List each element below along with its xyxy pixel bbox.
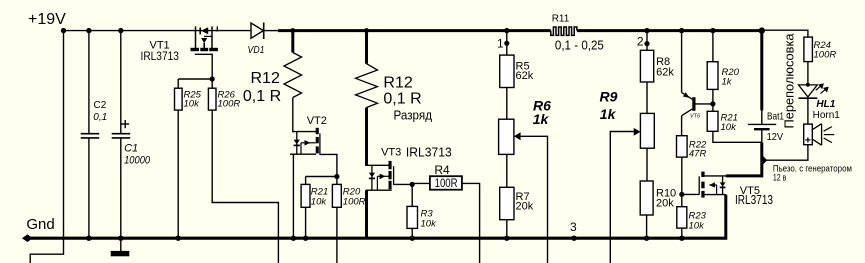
svg-text:1k: 1k xyxy=(533,111,550,127)
svg-text:Переполюсовка: Переполюсовка xyxy=(782,33,797,129)
piezo horn speaker xyxy=(804,124,835,146)
transistor VT2 xyxy=(290,115,327,155)
wire R26 stub xyxy=(211,79,213,88)
svg-text:Gnd: Gnd xyxy=(26,216,54,233)
wire gate node horizontal xyxy=(178,78,212,80)
svg-text:VT3: VT3 xyxy=(381,147,401,159)
junction dot xyxy=(176,236,181,241)
svg-text:IRL3713: IRL3713 xyxy=(406,145,452,160)
wire node to R4 xyxy=(412,182,430,184)
wire left column down + bottom step xyxy=(30,31,63,263)
wire R23 to ground xyxy=(681,228,683,238)
wire R25 to ground xyxy=(177,110,179,238)
svg-text:0,1: 0,1 xyxy=(93,112,107,123)
wire VT3 gate to node xyxy=(394,183,413,185)
wire R21 to ground xyxy=(305,207,307,238)
svg-text:C2: C2 xyxy=(94,100,107,111)
wire R7 to ground xyxy=(506,220,508,239)
resistor R21 (VT2) xyxy=(301,184,328,207)
junction dot xyxy=(291,236,296,241)
wire R5 to R6 xyxy=(506,88,508,120)
potentiometer R9 xyxy=(600,89,655,149)
wire Gnd rail xyxy=(27,237,727,240)
svg-text:20k: 20k xyxy=(516,201,534,213)
resistor R12 first (0.1R shunt) xyxy=(243,28,302,105)
wire R4 right down through rail xyxy=(462,183,480,263)
transistor VT3 xyxy=(366,145,452,191)
wire VT2 gate to R20 xyxy=(320,154,337,176)
junction dot xyxy=(334,174,339,179)
resistor R26 xyxy=(208,88,240,110)
resistor R10 xyxy=(640,181,676,215)
wire gate node horizontal xyxy=(306,176,337,178)
resistor R4 xyxy=(430,163,462,190)
wire R12-1 to VT2 drain xyxy=(292,98,294,133)
transistor VT6 (PNP) xyxy=(679,28,713,136)
junction dot xyxy=(118,236,123,241)
wire C2 column xyxy=(88,31,90,133)
wire thin rail to R24 xyxy=(762,30,808,37)
svg-text:R4: R4 xyxy=(434,163,450,177)
resistor R20 (VT2) xyxy=(332,184,365,207)
junction dot xyxy=(61,28,66,33)
wire VT1 gate down xyxy=(211,54,213,79)
svg-text:IRL3713: IRL3713 xyxy=(141,49,180,63)
wire R21 to battery minus node xyxy=(713,131,762,142)
diode VD1 xyxy=(248,23,279,57)
wire R8 to R9 xyxy=(646,82,648,113)
junction dot xyxy=(679,236,684,241)
wire C1 column xyxy=(120,31,122,133)
wire VT5 source to ground (thick) xyxy=(724,195,727,237)
wire R25 stub xyxy=(177,79,179,88)
wire VT2 source to ground xyxy=(292,154,294,238)
wire +19V rail thick right xyxy=(577,29,762,32)
svg-text:1: 1 xyxy=(497,37,504,51)
svg-text:2: 2 xyxy=(637,34,644,48)
resistor R5 xyxy=(500,55,534,87)
resistor R12 second (discharge) xyxy=(356,28,433,122)
capacitor C1 xyxy=(112,120,151,166)
node 1 xyxy=(504,28,509,33)
transistor VT1 xyxy=(141,26,218,63)
capacitor C2 xyxy=(81,100,108,138)
wire battery minus thick down xyxy=(760,142,763,177)
wire +19V rail thick middle xyxy=(278,29,551,32)
junction dot xyxy=(303,236,308,241)
node 3 xyxy=(571,236,576,241)
svg-text:62k: 62k xyxy=(656,66,674,78)
resistor R8 xyxy=(640,50,674,82)
svg-text:R12: R12 xyxy=(251,70,280,87)
svg-text:100R: 100R xyxy=(343,196,366,207)
gnd rail left arrow xyxy=(22,234,33,242)
svg-text:IRL3713: IRL3713 xyxy=(735,193,773,207)
svg-text:47R: 47R xyxy=(689,149,707,160)
svg-text:62k: 62k xyxy=(516,70,534,82)
piezo feed arrow xyxy=(763,156,767,165)
junction dot xyxy=(504,236,509,241)
wire LED to horn xyxy=(807,98,809,124)
junction dot xyxy=(86,236,91,241)
svg-text:10k: 10k xyxy=(721,122,738,133)
svg-text:100R: 100R xyxy=(435,178,458,190)
wire R3 to ground xyxy=(411,228,413,238)
svg-text:10k: 10k xyxy=(184,99,201,110)
svg-text:1k: 1k xyxy=(722,77,733,88)
LED HL1 xyxy=(799,83,841,121)
resistor R25 xyxy=(175,88,202,110)
wire R20 down through rail xyxy=(336,207,338,263)
svg-text:10k: 10k xyxy=(421,218,438,229)
resistor R21 (right) xyxy=(707,111,738,133)
svg-text:C1: C1 xyxy=(124,142,138,154)
junction dot xyxy=(86,28,91,33)
wire R10 to ground xyxy=(646,215,648,238)
svg-text:0,1 - 0,25: 0,1 - 0,25 xyxy=(555,37,604,52)
svg-text:VT2: VT2 xyxy=(307,115,327,127)
wire R20 to R21 xyxy=(712,89,714,111)
svg-text:HL1: HL1 xyxy=(816,99,835,110)
wire VT3 source to ground (thick) xyxy=(365,190,368,237)
resistor R23 xyxy=(677,207,707,232)
junction dot xyxy=(710,101,715,106)
svg-text:VT6: VT6 xyxy=(690,114,701,120)
svg-text:10k: 10k xyxy=(311,196,328,207)
junction dot xyxy=(679,192,684,197)
svg-text:VD1: VD1 xyxy=(248,45,265,56)
wire to piezo xyxy=(767,145,808,161)
wire R24 to LED xyxy=(807,62,809,85)
resistor R7 xyxy=(500,187,534,219)
wire node to R3 xyxy=(411,184,413,206)
junction dot xyxy=(118,28,123,33)
resistor R11 (inline meander) xyxy=(551,13,604,52)
svg-text:1k: 1k xyxy=(600,106,617,122)
potentiometer R6 xyxy=(499,98,552,155)
svg-text:R12: R12 xyxy=(383,75,412,92)
junction dot xyxy=(410,236,415,241)
wire node to R23 xyxy=(681,194,683,206)
svg-text:R9: R9 xyxy=(600,89,618,105)
svg-text:12V: 12V xyxy=(767,132,784,143)
wire R9 wiper left-down xyxy=(610,132,633,263)
resistor R20 (right) xyxy=(707,28,739,90)
wire VT5 drain thick to battery column xyxy=(726,174,762,177)
svg-text:R11: R11 xyxy=(552,13,570,24)
ground symbol xyxy=(111,238,130,256)
resistor R3 xyxy=(407,206,437,229)
svg-text:100R: 100R xyxy=(218,99,241,110)
svg-text:3: 3 xyxy=(570,220,577,234)
junction dot xyxy=(210,76,215,81)
wire R6 to R7 xyxy=(506,154,508,187)
wire R20 stub xyxy=(336,177,338,185)
wire node to VT5 gate xyxy=(682,193,699,195)
resistor R24 xyxy=(804,37,836,62)
wire +19V rail thin left xyxy=(64,30,252,32)
wire R9 to R10 xyxy=(646,148,648,181)
wire R12-2 to VT3 drain (thick) xyxy=(365,108,368,166)
node 2 xyxy=(644,28,649,33)
svg-text:12 в: 12 в xyxy=(773,173,787,183)
svg-text:10k: 10k xyxy=(689,220,706,231)
resistor R22 xyxy=(677,136,708,160)
svg-text:0,1 R: 0,1 R xyxy=(243,88,281,105)
svg-text:100R: 100R xyxy=(814,49,837,60)
svg-text:+19V: +19V xyxy=(28,11,66,28)
wire R26 route down-right-down xyxy=(212,110,278,263)
svg-text:0,1 R: 0,1 R xyxy=(383,91,421,108)
svg-text:Разряд: Разряд xyxy=(394,108,433,123)
wire R22 to node xyxy=(681,157,683,194)
battery Bat1 xyxy=(748,27,785,143)
junction dot xyxy=(410,182,415,187)
wire R6 wiper right-down xyxy=(521,136,548,263)
svg-text:20k: 20k xyxy=(656,198,674,210)
junction dot xyxy=(644,236,649,241)
svg-text:Horn1: Horn1 xyxy=(813,110,841,121)
wire R21 stub xyxy=(305,177,307,185)
svg-text:10000: 10000 xyxy=(124,154,151,166)
transistor VT5 xyxy=(699,172,773,207)
